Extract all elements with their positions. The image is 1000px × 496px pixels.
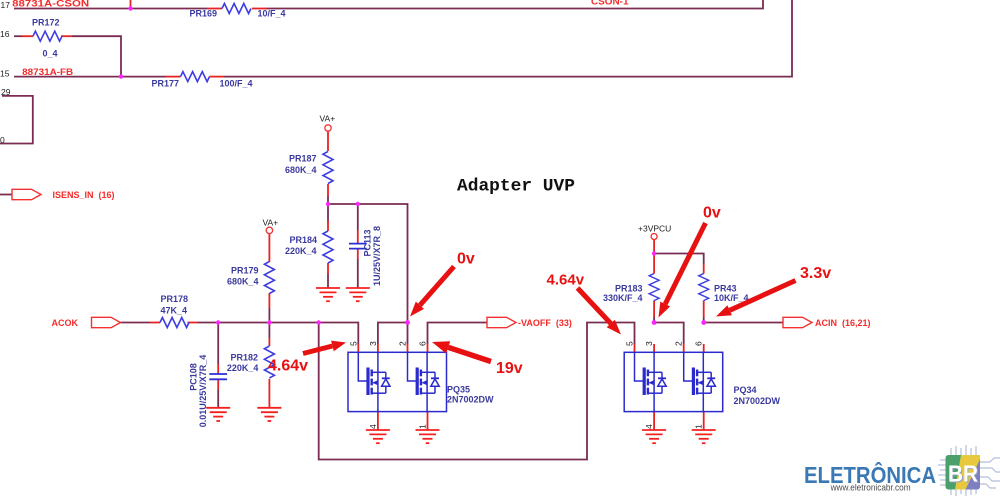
net label 88731A-FB [22, 67, 74, 77]
svg-text:CSON-1: CSON-1 [591, 0, 629, 7]
svg-text:5: 5 [625, 341, 635, 346]
svg-text:100/F_4: 100/F_4 [220, 79, 253, 89]
resistor PR182 leads [268, 338, 270, 408]
wire ISENS_IN stub [0, 194, 12, 196]
resistor PR184 [285, 231, 333, 263]
port -VAOFF [487, 317, 572, 328]
svg-text:1U/25V/X7R_8: 1U/25V/X7R_8 [372, 226, 382, 286]
svg-text:VA+: VA+ [263, 218, 279, 228]
title Adapter UVP [457, 177, 575, 197]
resistor PR179 [227, 262, 274, 294]
wire net CSON (pin 17 row) [14, 0, 763, 9]
annotation 0v (left) with arrow [410, 251, 475, 317]
svg-text:PR177: PR177 [152, 79, 180, 89]
svg-text:PC108: PC108 [189, 363, 199, 391]
junction PR172 / 88731A-FB [119, 74, 123, 78]
svg-text:PR178: PR178 [161, 294, 189, 304]
resistor PR177 leads [166, 76, 224, 78]
svg-text:PR43: PR43 [714, 284, 737, 294]
ground below PQ35 pin 1 [416, 430, 440, 443]
logo EletronicaBR [804, 445, 1000, 496]
resistor PR169 leads [207, 8, 267, 10]
net label 88731A-CSON [12, 0, 89, 9]
capacitor PC108 leads [217, 364, 219, 390]
resistor PR183 [603, 274, 659, 304]
svg-text:-VAOFF (33): -VAOFF (33) [518, 318, 572, 328]
svg-text:6: 6 [694, 341, 704, 346]
svg-text:4: 4 [368, 424, 378, 429]
junction PC113 node [356, 202, 360, 206]
resistor PR183 leads [653, 254, 655, 318]
wire PR179 branch [268, 308, 270, 323]
VA+ left supply lead [268, 234, 270, 262]
svg-text:6: 6 [418, 341, 428, 346]
capacitor PC108 [189, 355, 228, 428]
svg-text:17: 17 [1, 0, 11, 10]
svg-text:2N7002DW: 2N7002DW [734, 396, 781, 406]
wire PR43 bottom [703, 317, 705, 323]
svg-text:PR184: PR184 [289, 235, 317, 245]
svg-text:4: 4 [644, 424, 654, 429]
resistor PR184 leads [327, 221, 329, 274]
ground below PR184 [316, 288, 340, 301]
wire PQ34 drain1-gate2 net [654, 323, 684, 345]
svg-text:www.eletronicabr.com: www.eletronicabr.com [830, 483, 911, 494]
svg-text:2N7002DW: 2N7002DW [447, 395, 494, 405]
PQ34 top pin leads [635, 344, 704, 352]
resistor PR172 leads [22, 35, 72, 37]
ground below PR182 [257, 408, 281, 421]
+3VPCU supply lead [653, 240, 655, 254]
PQ34 pin numbers 5 3 2 6 4 1 [625, 341, 704, 429]
transistor PQ35 2N7002DW [348, 352, 494, 411]
port ACOK [52, 317, 121, 328]
svg-text:ISENS_IN (16): ISENS_IN (16) [53, 190, 115, 200]
svg-text:Adapter UVP: Adapter UVP [457, 177, 575, 197]
svg-text:220K_4: 220K_4 [285, 246, 317, 256]
svg-text:29: 29 [1, 87, 11, 97]
svg-text:ACIN (16,21): ACIN (16,21) [815, 318, 871, 328]
annotation 0v (right) with arrow [659, 205, 721, 318]
ground below PQ34 pin 1 [692, 430, 716, 443]
svg-text:PR169: PR169 [190, 9, 218, 19]
resistor PR178 leads [150, 322, 198, 324]
svg-text:PQ34: PQ34 [734, 385, 757, 395]
resistor PR178 [160, 294, 189, 328]
svg-text:220K_4: 220K_4 [227, 363, 259, 373]
PQ35 pin numbers 5 3 2 6 4 1 [348, 341, 427, 429]
wire PC113 above and below [357, 204, 359, 288]
pin lead above junction on CSON wire [130, 0, 132, 9]
resistor PR172 [32, 18, 62, 59]
svg-text:1: 1 [694, 424, 704, 429]
wire pin 29-30 bracket [0, 96, 33, 144]
wire ACOK net horizontal [121, 323, 359, 345]
svg-text:ACOK: ACOK [52, 318, 79, 328]
PQ35 top pin leads [358, 344, 427, 352]
wire PC108 branch [217, 323, 219, 408]
svg-text:2: 2 [398, 341, 408, 346]
wire PR187 below [327, 196, 329, 204]
capacitor PC113 [349, 226, 382, 286]
junction PR43 / PQ34 pin 6 / ACIN [701, 320, 706, 325]
annotation 19v with arrow [432, 341, 523, 377]
wire +3VPCU rail to PR43 [654, 254, 704, 265]
junction ACOK / PR179 / PR182 [267, 320, 271, 324]
resistor PR179 bottom lead [268, 293, 270, 308]
ground below PC113 [346, 288, 370, 301]
PQ34 bottom pin leads [654, 412, 704, 430]
wire pin 16 / PR172 branch [14, 36, 121, 76]
resistor PR187 [285, 152, 333, 184]
wire PQ35 drain1-gate2 net [378, 323, 408, 345]
svg-text:680K_4: 680K_4 [285, 165, 317, 175]
svg-text:PR179: PR179 [231, 266, 259, 276]
port ACIN [783, 317, 871, 328]
svg-text:0v: 0v [703, 205, 721, 222]
wire PQ35 pin6 to -VAOFF port [428, 323, 488, 345]
svg-text:330K/F_4: 330K/F_4 [603, 293, 643, 303]
junction PR187 / PR184 node [326, 202, 330, 206]
junction ACOK / PC108 [216, 320, 220, 324]
svg-text:1: 1 [418, 424, 428, 429]
junction on CSON wire [128, 6, 132, 10]
PQ35 bottom pin leads [378, 412, 428, 430]
annotation 4.64v (left) with arrow [268, 341, 346, 375]
wire ACOK net riser to bottom [319, 323, 635, 460]
svg-text:0.01U/25V/X7R_4: 0.01U/25V/X7R_4 [198, 355, 208, 428]
svg-text:3: 3 [644, 341, 654, 346]
net label CSON-1 [591, 0, 629, 7]
svg-text:19v: 19v [496, 360, 523, 377]
svg-text:88731A-CSON: 88731A-CSON [12, 0, 89, 9]
pin number 17 [1, 0, 11, 10]
svg-text:VA+: VA+ [320, 114, 336, 124]
wire PR182 branch [268, 323, 270, 339]
wire PQ34 pin6 to ACIN port [704, 322, 783, 324]
VA+ center supply lead [327, 132, 329, 151]
wire divider node to PQ35 pin2 [328, 204, 408, 323]
junction +3VPCU / PR183 [652, 251, 656, 255]
capacitor PC113 leads [357, 230, 359, 259]
resistor PR43 leads [703, 264, 705, 317]
svg-text:4.64v: 4.64v [268, 358, 308, 375]
svg-text:88731A-FB: 88731A-FB [22, 67, 74, 77]
svg-text:PR183: PR183 [615, 284, 643, 294]
resistor PR187 leads [327, 184, 329, 196]
resistor PR177 [152, 72, 253, 89]
svg-text:47K_4: 47K_4 [161, 306, 188, 316]
svg-text:PQ35: PQ35 [447, 385, 470, 395]
pin number 30 (cut) [0, 135, 5, 145]
annotation 3.3v with arrow [716, 265, 831, 317]
svg-text:PR172: PR172 [32, 18, 60, 28]
svg-text:3: 3 [368, 341, 378, 346]
svg-text:4.64v: 4.64v [547, 272, 585, 289]
svg-text:0_4: 0_4 [43, 49, 58, 59]
svg-text:2: 2 [674, 341, 684, 346]
ground below PQ34 pin 4 [642, 430, 666, 443]
svg-text:3.3v: 3.3v [800, 265, 831, 282]
power symbol +3VPCU [638, 224, 671, 240]
wire net 88731A-FB (pin 15 row) [14, 0, 792, 77]
ground below PC108 [206, 408, 230, 421]
svg-text:PR182: PR182 [230, 353, 258, 363]
wire PR183 bottom [653, 317, 655, 323]
junction PR183 / PQ34 pin 3 [652, 320, 657, 325]
svg-text:5: 5 [348, 341, 358, 346]
svg-text:0: 0 [0, 135, 5, 145]
resistor PR43 [699, 274, 749, 304]
resistor PR182 [227, 346, 275, 378]
svg-text:16: 16 [0, 29, 10, 39]
svg-text:680K_4: 680K_4 [227, 277, 259, 287]
port ISENS_IN [12, 189, 115, 200]
junction divider node / PQ35 pin 2 [405, 320, 410, 325]
power symbol VA+ (left) [263, 218, 279, 234]
svg-text:PC113: PC113 [362, 229, 372, 256]
wire PR184 above and below [327, 204, 329, 288]
pin number 16 [0, 29, 10, 39]
power symbol VA+ (center) [320, 114, 336, 132]
svg-text:10/F_4: 10/F_4 [258, 9, 286, 19]
annotation 4.64v (right) with arrow [547, 272, 622, 335]
svg-text:PR187: PR187 [289, 154, 317, 164]
svg-text:0v: 0v [457, 251, 475, 268]
junction ACOK / riser to PQ34 gate [317, 320, 321, 324]
resistor PR169 [190, 4, 286, 19]
pin number 15 [0, 68, 10, 78]
svg-text:BR: BR [948, 461, 978, 487]
transistor PQ34 2N7002DW [624, 352, 780, 411]
svg-text:15: 15 [0, 68, 10, 78]
svg-text:+3VPCU: +3VPCU [638, 224, 671, 234]
pin number 29 [1, 87, 11, 97]
ground below PQ35 pin 4 [366, 430, 390, 443]
